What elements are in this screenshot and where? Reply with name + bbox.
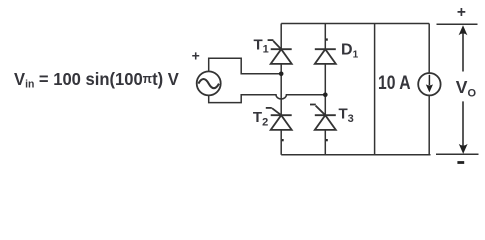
svg-text:T2: T2 — [253, 109, 268, 128]
svg-text:10 A: 10 A — [378, 72, 411, 94]
svg-text:+: + — [457, 4, 466, 21]
svg-text:T1: T1 — [254, 36, 269, 55]
svg-text:D1: D1 — [341, 41, 359, 60]
svg-text:VO: VO — [456, 77, 477, 99]
svg-text:Vin = 100 sin(100πt) V: Vin = 100 sin(100πt) V — [14, 70, 179, 91]
svg-text:T3: T3 — [339, 106, 354, 125]
svg-text:+: + — [192, 47, 200, 63]
